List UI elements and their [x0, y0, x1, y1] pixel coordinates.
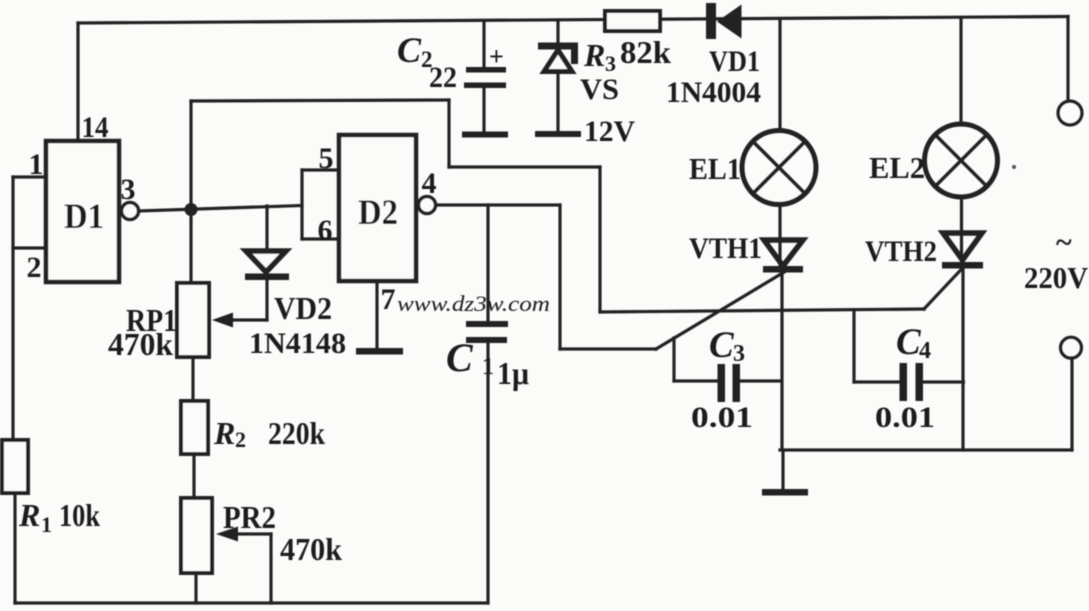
svg-text:10k: 10k [59, 497, 100, 533]
IC D2 [339, 135, 416, 281]
wire top right drop to terminal [1066, 17, 1069, 102]
wire horizontal y167 [449, 165, 600, 168]
svg-text:EL1: EL1 [689, 151, 741, 186]
resistor R2 [181, 401, 325, 454]
svg-text:R: R [583, 37, 605, 73]
wire C3 right lead [740, 379, 780, 382]
wire EL2 drop from rail [959, 18, 962, 125]
potentiometer PR2 [181, 498, 342, 573]
zener diode VS 12V [538, 43, 635, 149]
speck artifact [1012, 165, 1016, 169]
capacitor C1 [446, 321, 529, 391]
wire vertical x191 pin3 node down to RP1 [189, 101, 192, 283]
terminal top 220V [1058, 101, 1082, 125]
wire R2 to PR2 [192, 454, 195, 498]
svg-text:4: 4 [919, 338, 931, 364]
potentiometer RP1 [108, 283, 233, 362]
wire horizontal y312 to VTH2 gate [600, 309, 924, 312]
wire VS drop from rail [556, 20, 559, 43]
diode VD2 1N4148 [245, 251, 346, 360]
wire diagonal VTH1 gate [656, 271, 786, 349]
svg-text:14: 14 [82, 111, 109, 144]
svg-text:VS: VS [580, 73, 619, 106]
wire C4 left lead [854, 380, 900, 383]
svg-text:1N4004: 1N4004 [666, 76, 761, 109]
svg-text:1: 1 [482, 354, 494, 380]
svg-text:220k: 220k [268, 415, 325, 451]
wire C4 right lead [924, 380, 964, 383]
svg-text:VTH2: VTH2 [865, 235, 937, 268]
svg-text:VD1: VD1 [709, 45, 760, 78]
wire C1 top vertical [486, 205, 489, 322]
ground bar D2 pin7 [356, 348, 403, 355]
svg-text:1: 1 [29, 148, 44, 181]
wire vertical x560 [558, 205, 561, 349]
node junction dot pin3 [185, 203, 198, 216]
svg-text:+: + [489, 42, 504, 71]
wire D2 pin6 stub [302, 237, 339, 240]
thyristor VTH1 [689, 232, 803, 273]
ground bar C2 [462, 132, 508, 138]
wire C3 left lead [674, 379, 718, 382]
lamp EL2 [869, 124, 998, 197]
label 220V mains [1024, 226, 1089, 295]
wire D1 pin1 stub [13, 175, 46, 178]
wire bottom terminal vertical [1070, 358, 1073, 450]
svg-text:12V: 12V [584, 115, 635, 148]
capacitor C2 electrolytic [397, 30, 506, 132]
wire R1 bottom [13, 493, 16, 603]
resistor R3 [583, 11, 671, 76]
svg-text:470k: 470k [108, 326, 173, 362]
resistor R1 [2, 440, 100, 537]
svg-text:0.01: 0.01 [691, 401, 753, 434]
svg-text:VTH1: VTH1 [689, 232, 762, 265]
svg-text:EL2: EL2 [869, 150, 925, 185]
wire ground stub below rail [781, 450, 784, 489]
svg-text:1μ: 1μ [497, 355, 529, 391]
svg-text:~: ~ [1056, 226, 1072, 259]
wire left vertical pins1-2 down to R1 [11, 177, 14, 440]
wire PR2 bottom [194, 573, 197, 603]
svg-text:2: 2 [27, 251, 42, 284]
wire VD2 anode vertical [265, 206, 268, 249]
wire C3 left tap [672, 338, 675, 381]
wire D1 pin14 vertical [76, 23, 79, 141]
svg-text:22: 22 [429, 61, 457, 94]
wire PR2 wiper arm [234, 532, 271, 535]
wire D2 pin4 output [436, 203, 560, 206]
wire D2 pin5 stub [302, 168, 339, 171]
wire C2 drop from rail [482, 21, 485, 67]
ground bar VS [535, 131, 581, 137]
ground bar main [762, 489, 808, 496]
wire EL1 to VTH1 [778, 205, 781, 272]
wire horizontal y101 [191, 100, 449, 101]
wire PR2 wiper down [269, 534, 272, 603]
svg-text:R: R [213, 415, 235, 451]
svg-text:1N4148: 1N4148 [249, 327, 346, 360]
svg-text:PR2: PR2 [223, 499, 276, 535]
wire D2 pin7 to ground [375, 281, 378, 349]
wire D2 pins5-6 bracket [300, 170, 303, 239]
D1 pin3 inversion bubble [122, 203, 139, 220]
wire RP1 wiper arm [228, 318, 267, 321]
capacitor C3 [691, 325, 753, 434]
svg-text:www.dz3w.com: www.dz3w.com [397, 291, 550, 316]
svg-text:1: 1 [41, 512, 52, 537]
wire EL1 drop from rail [778, 20, 781, 131]
svg-text:VD2: VD2 [274, 290, 332, 326]
wire vertical x600 [598, 167, 601, 312]
wire VTH1 cathode down [780, 271, 783, 450]
svg-text:D2: D2 [358, 192, 398, 232]
svg-text:3: 3 [121, 173, 136, 206]
svg-text:R: R [18, 497, 40, 533]
wire diagonal VTH2 gate [924, 267, 964, 309]
svg-text:C: C [397, 30, 422, 70]
svg-text:2: 2 [235, 427, 246, 452]
svg-text:7: 7 [381, 283, 396, 316]
svg-text:0.01: 0.01 [875, 401, 935, 434]
wire D1 pin3 output [139, 206, 302, 212]
svg-text:D1: D1 [64, 196, 104, 236]
lamp EL1 [689, 131, 816, 205]
wire VD2 cathode to RP1 wiper [265, 280, 268, 320]
D2 pin4 inversion bubble [419, 197, 436, 214]
IC D1 [46, 141, 119, 282]
wire top supply rail [78, 17, 1068, 24]
svg-text:470k: 470k [280, 531, 342, 567]
wire bottom rail [15, 601, 488, 604]
wire C4 left tap [852, 310, 855, 382]
diode VD1 1N4004 [666, 3, 761, 109]
wire bottom right rail [780, 448, 1072, 451]
svg-text:220V: 220V [1024, 260, 1089, 295]
wire VTH2 cathode down [961, 269, 964, 451]
svg-text:C: C [709, 325, 735, 366]
svg-text:3: 3 [605, 51, 616, 76]
svg-text:3: 3 [733, 341, 745, 367]
svg-text:4: 4 [422, 167, 437, 200]
wire C1 bottom vertical [486, 343, 489, 603]
wire RP1 to R2 [191, 357, 194, 401]
terminal bottom 220V [1061, 337, 1082, 358]
wire vertical x449 [447, 100, 450, 167]
wire D1 pin2 stub [13, 246, 46, 249]
wire EL2 to VTH2 [960, 197, 963, 266]
wire horizontal y349 [560, 347, 656, 350]
svg-text:C: C [446, 335, 474, 380]
thyristor VTH2 [865, 233, 983, 269]
svg-text:82k: 82k [620, 34, 671, 70]
svg-text:5: 5 [319, 142, 334, 175]
capacitor C4 [875, 322, 935, 434]
svg-text:6: 6 [318, 214, 333, 247]
